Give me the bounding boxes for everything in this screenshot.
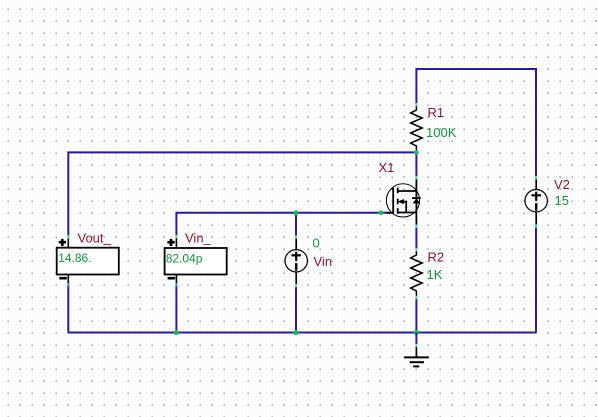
- svg-text:82.04p: 82.04p: [166, 251, 203, 265]
- svg-text:X1: X1: [379, 160, 395, 175]
- Vin source pin tick bottom: [295, 284, 297, 287]
- svg-text:V2: V2: [554, 177, 570, 192]
- wire R1 bottom to MOSFET drain: [415, 152, 417, 177]
- node junction dot Vin source / bottom rail: [293, 330, 298, 335]
- plus terminal mark: [167, 239, 174, 246]
- drain bar: [398, 190, 417, 192]
- minus bar: [535, 203, 537, 211]
- svg-text:100K: 100K: [426, 125, 457, 140]
- plus sign: [292, 254, 302, 256]
- node junction dot gate wire / Vin source: [293, 210, 298, 215]
- svg-text:15: 15: [555, 193, 569, 208]
- svg-text:R1: R1: [428, 105, 445, 120]
- ground: [404, 346, 429, 366]
- voltmeter Vin_ pin tick bottom: [175, 283, 177, 286]
- svg-text:0: 0: [313, 236, 320, 251]
- svg-text:Vout_: Vout_: [78, 231, 112, 246]
- voltmeter Vin_ pin tick top: [175, 235, 177, 238]
- wire Vin source top drop: [295, 213, 297, 237]
- voltmeter Vout_ pin tick top: [67, 235, 69, 238]
- wire MOSFET source to R2: [415, 226, 417, 249]
- channel segments: [397, 188, 399, 194]
- Vin source pin tick top: [295, 235, 297, 238]
- svg-text:14.86.: 14.86.: [58, 251, 91, 265]
- body diode triangle: [413, 199, 421, 204]
- resistor R2: [411, 249, 423, 297]
- wire Vout meter bottom to bottom rail: [67, 285, 69, 333]
- wire Vin_ meter bottom to bottom rail: [175, 285, 177, 333]
- minus bar: [295, 263, 297, 271]
- wire Vin source bottom to bottom rail: [295, 285, 297, 332]
- wire bottom rail: [68, 332, 536, 334]
- node dot gate pin: [379, 210, 384, 215]
- wire ground stub: [415, 333, 417, 345]
- voltmeter Vout_ pin tick bottom: [67, 283, 69, 286]
- svg-text:R2: R2: [428, 250, 445, 265]
- svg-text:Vin: Vin: [314, 254, 333, 269]
- gate pin: [386, 212, 393, 214]
- voltmeter Vin_ box: [165, 236, 227, 284]
- transistor X1 (NMOS with body diode): [386, 177, 420, 226]
- node junction dot Vin_ meter / bottom rail: [174, 330, 179, 335]
- wire top rail from R1 node to V2: [416, 69, 536, 178]
- svg-text:Vin_: Vin_: [185, 231, 212, 246]
- minus terminal mark: [168, 277, 176, 280]
- resistor R2 pin tick bottom: [415, 296, 417, 299]
- source bar: [398, 212, 417, 214]
- voltage source V2: [525, 178, 547, 227]
- resistor R1: [411, 104, 423, 152]
- wire R2 bottom to ground node: [415, 297, 417, 332]
- V2 pin tick top: [535, 176, 537, 179]
- ground pin tick: [415, 344, 417, 347]
- resistor R1 pin tick top: [415, 103, 417, 106]
- svg-text:1K: 1K: [427, 267, 443, 282]
- node junction dot ground / bottom rail: [414, 330, 419, 335]
- gate bar: [392, 188, 394, 214]
- transistor X1 pin tick drain: [415, 176, 417, 179]
- plus terminal mark: [59, 239, 66, 246]
- transistor X1 pin tick source: [415, 225, 417, 228]
- V2 pin tick bottom: [535, 224, 537, 227]
- wire gate horizontal: [176, 213, 390, 237]
- wire Vout horizontal from drain node to left column: [68, 152, 416, 236]
- voltage source Vin: [285, 237, 307, 286]
- body diode cathode bar: [412, 197, 421, 199]
- minus terminal mark: [59, 277, 67, 280]
- bulk connection: [404, 202, 407, 213]
- bulk arrow: [398, 199, 404, 204]
- voltmeter Vout_ box: [57, 237, 119, 285]
- node junction dot drain/R1/Vout: [414, 150, 419, 155]
- plus sign: [532, 194, 542, 196]
- resistor R2 pin tick top: [415, 248, 417, 251]
- wire V2 bottom down to bottom rail: [535, 226, 537, 333]
- drain/source vertical: [415, 177, 417, 226]
